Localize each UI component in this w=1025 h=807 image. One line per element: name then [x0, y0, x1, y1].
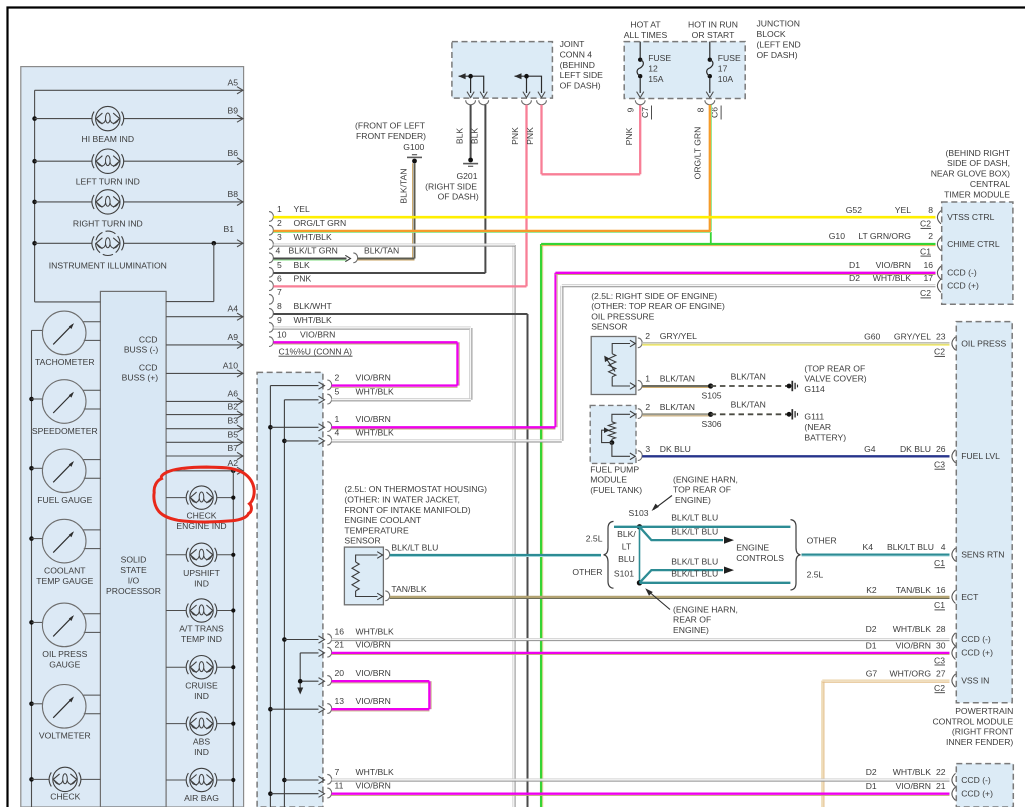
- svg-text:2: 2: [277, 218, 282, 228]
- svg-text:VTSS CTRL: VTSS CTRL: [947, 212, 994, 222]
- svg-text:1: 1: [335, 414, 340, 424]
- wire VIO/BRN D1 row: [555, 272, 935, 274]
- svg-text:ENGINE: ENGINE: [736, 543, 769, 553]
- svg-text:C6: C6: [710, 107, 720, 118]
- svg-text:LEFT SIDE: LEFT SIDE: [560, 70, 604, 80]
- ground G201: [468, 158, 473, 163]
- svg-text:8: 8: [695, 107, 705, 112]
- svg-text:C1: C1: [920, 246, 931, 256]
- svg-text:CONTROLS: CONTROLS: [736, 553, 784, 563]
- svg-text:3: 3: [645, 444, 650, 454]
- brace right engine controls: [791, 520, 801, 590]
- wire 20 VIO/BRN loop to 13: [332, 680, 430, 682]
- svg-text:8: 8: [277, 301, 282, 311]
- svg-text:D1: D1: [849, 260, 860, 270]
- connector pin 4: [284, 440, 318, 442]
- svg-text:BLK/LT BLU: BLK/LT BLU: [671, 513, 718, 523]
- svg-text:BLK: BLK: [455, 128, 465, 145]
- svg-text:22: 22: [936, 767, 946, 777]
- svg-text:OIL PRESSURE: OIL PRESSURE: [591, 311, 654, 321]
- svg-text:VIO/BRN: VIO/BRN: [356, 414, 391, 424]
- wire VIO/BRN CCD(+) row 21-30: [332, 652, 950, 654]
- instrument cluster panel box: [21, 67, 244, 807]
- svg-text:CCD (+): CCD (+): [947, 280, 979, 290]
- svg-text:(FRONT OF LEFT: (FRONT OF LEFT: [355, 121, 426, 131]
- svg-text:C3: C3: [934, 460, 945, 470]
- wire B1 to processor: [213, 243, 215, 301]
- wire BLK/LT BLU S103 top: [614, 526, 790, 528]
- svg-text:OF DASH): OF DASH): [560, 80, 601, 90]
- svg-text:C2: C2: [920, 219, 931, 229]
- svg-text:C2: C2: [934, 683, 945, 693]
- svg-text:TACHOMETER: TACHOMETER: [35, 357, 95, 367]
- svg-text:28: 28: [936, 624, 946, 634]
- svg-text:G111: G111: [804, 412, 824, 422]
- svg-text:CCD (-): CCD (-): [961, 775, 991, 785]
- svg-text:CHIME CTRL: CHIME CTRL: [947, 239, 1000, 249]
- svg-text:G114: G114: [804, 384, 825, 394]
- svg-text:TEMP GAUGE: TEMP GAUGE: [36, 576, 93, 586]
- svg-text:2: 2: [335, 372, 340, 382]
- wire BLK/LT BLU S101 bottom: [640, 582, 791, 584]
- svg-text:IND: IND: [194, 691, 209, 701]
- node dots on connector buses: [268, 425, 273, 430]
- wire LT GRN/ORG vertical: [540, 244, 542, 807]
- svg-text:ORG/LT GRN: ORG/LT GRN: [294, 218, 347, 228]
- connector pin 21: [300, 652, 318, 654]
- svg-text:BLK/TAN: BLK/TAN: [660, 402, 695, 412]
- svg-text:(TOP REAR OF: (TOP REAR OF: [804, 363, 865, 373]
- wire BLK/TAN dashed to G111: [711, 413, 789, 415]
- svg-text:ECT: ECT: [961, 592, 979, 602]
- svg-text:D2: D2: [866, 767, 877, 777]
- wire BLK wire5 riser: [484, 105, 486, 273]
- svg-text:FRONT OF INTAKE MANIFOLD): FRONT OF INTAKE MANIFOLD): [344, 505, 470, 515]
- svg-text:BLK/TAN: BLK/TAN: [399, 168, 409, 203]
- svg-text:S103: S103: [628, 508, 648, 518]
- svg-text:LT: LT: [622, 541, 632, 551]
- wire indicator bus vertical: [232, 471, 234, 807]
- svg-text:(2.5L: RIGHT SIDE OF ENGINE): (2.5L: RIGHT SIDE OF ENGINE): [591, 291, 717, 301]
- svg-text:C3: C3: [934, 655, 945, 665]
- wire pins 21-20 link with down arrow: [299, 653, 301, 688]
- svg-text:G201: G201: [456, 171, 477, 181]
- svg-text:OIL PRESS: OIL PRESS: [42, 649, 87, 659]
- svg-text:YEL: YEL: [895, 205, 911, 215]
- svg-text:REAR OF: REAR OF: [673, 615, 711, 625]
- svg-text:WHT/BLK: WHT/BLK: [294, 232, 332, 242]
- svg-text:JUNCTION: JUNCTION: [757, 19, 800, 29]
- connector pin 1: [270, 426, 318, 428]
- svg-text:AIR BAG: AIR BAG: [184, 793, 219, 803]
- svg-text:(ENGINE HARN,: (ENGINE HARN,: [673, 474, 738, 484]
- svg-text:BLK/TAN: BLK/TAN: [731, 371, 766, 381]
- svg-text:COOLANT: COOLANT: [44, 565, 86, 575]
- svg-text:27: 27: [936, 668, 946, 678]
- svg-text:30: 30: [936, 640, 946, 650]
- svg-text:CHECK: CHECK: [186, 511, 216, 521]
- svg-text:CCD (+): CCD (+): [961, 648, 993, 658]
- svg-text:ORG/LT GRN: ORG/LT GRN: [692, 127, 702, 180]
- svg-text:I/O: I/O: [128, 576, 140, 586]
- svg-text:A2: A2: [227, 458, 238, 468]
- svg-text:ENGINE): ENGINE): [673, 625, 709, 635]
- gauge SPEEDOMETER: [32, 398, 43, 400]
- svg-text:BLOCK: BLOCK: [757, 29, 786, 39]
- svg-text:15A: 15A: [648, 74, 664, 84]
- svg-text:16: 16: [335, 626, 345, 636]
- svg-text:2: 2: [928, 231, 933, 241]
- wire WHT/BLK row 7-22: [332, 778, 950, 780]
- wire ORG/LT GRN from fuse 17 riser: [709, 105, 711, 231]
- svg-text:OTHER: OTHER: [807, 535, 837, 545]
- wire 9 link to pin 5: [469, 328, 471, 400]
- PCM pin VSS IN 27: [952, 674, 956, 687]
- svg-text:SENSOR: SENSOR: [591, 322, 627, 332]
- svg-text:B9: B9: [227, 106, 238, 116]
- svg-text:SPEEDOMETER: SPEEDOMETER: [32, 426, 98, 436]
- wire BLK/WHT vertical from wire8: [527, 314, 529, 807]
- svg-text:7: 7: [335, 767, 340, 777]
- gauge COOLANT TEMP GAUGE: [32, 538, 43, 540]
- svg-text:ABS: ABS: [193, 737, 210, 747]
- svg-text:OIL PRESS: OIL PRESS: [961, 338, 1006, 348]
- svg-text:GRY/YEL: GRY/YEL: [894, 331, 931, 341]
- svg-text:CCD (-): CCD (-): [961, 634, 991, 644]
- wire BLK/LT BLU S101 branch arrow: [640, 570, 724, 583]
- svg-text:A6: A6: [227, 388, 238, 398]
- svg-text:G60: G60: [864, 331, 880, 341]
- svg-text:CCD (-): CCD (-): [947, 268, 977, 278]
- svg-text:WHT/BLK: WHT/BLK: [356, 626, 394, 636]
- CTM pin CCD(-) 16: [937, 266, 941, 279]
- svg-text:RIGHT TURN IND: RIGHT TURN IND: [73, 219, 143, 229]
- connector pin 7: [284, 779, 318, 781]
- node gauge bus dots: [29, 397, 34, 402]
- svg-text:BLU: BLU: [618, 554, 635, 564]
- svg-text:C2: C2: [934, 347, 945, 357]
- svg-text:UPSHIFT: UPSHIFT: [183, 568, 221, 578]
- svg-text:FUEL LVL: FUEL LVL: [961, 451, 1000, 461]
- svg-text:POWERTRAIN: POWERTRAIN: [955, 706, 1013, 716]
- wire pin A5: [35, 89, 244, 91]
- svg-text:8: 8: [928, 205, 933, 215]
- svg-text:2.5L: 2.5L: [807, 570, 824, 580]
- svg-text:C1%%U (CONN A): C1%%U (CONN A): [279, 346, 353, 356]
- wire WHT/ORG vertical VSS: [821, 681, 823, 807]
- svg-text:NEAR GLOVE BOX): NEAR GLOVE BOX): [931, 169, 1010, 179]
- svg-text:HOT AT: HOT AT: [630, 20, 661, 30]
- svg-text:5: 5: [277, 260, 282, 270]
- PCM pin ECT 16: [952, 590, 956, 603]
- wire BLK to G201: [470, 105, 472, 159]
- svg-text:TEMPERATURE: TEMPERATURE: [344, 525, 409, 535]
- wire connector bus vertical 1: [269, 386, 271, 807]
- svg-text:VALVE COVER): VALVE COVER): [804, 374, 866, 384]
- svg-text:21: 21: [936, 781, 946, 791]
- wire WHT/BLK CCD(-) row 16-28: [332, 637, 950, 639]
- svg-text:ENGINE): ENGINE): [675, 495, 711, 505]
- svg-text:(ENGINE HARN,: (ENGINE HARN,: [673, 604, 738, 614]
- svg-text:CCD (+): CCD (+): [961, 789, 993, 799]
- svg-text:SENS RTN: SENS RTN: [961, 550, 1004, 560]
- svg-text:CHECK: CHECK: [50, 791, 80, 801]
- lamp ABS IND: [166, 723, 186, 725]
- svg-text:FUSE: FUSE: [648, 53, 671, 63]
- svg-text:VIO/BRN: VIO/BRN: [356, 668, 391, 678]
- fuel pump module dashed box: [590, 405, 636, 463]
- wire BLK/LT BLU K4 SENS RTN row: [802, 553, 950, 555]
- bottom module pin CCD(-) 22: [952, 773, 956, 786]
- PCM pin SENS RTN 4: [952, 548, 956, 561]
- svg-text:MODULE: MODULE: [590, 475, 627, 485]
- svg-text:16: 16: [936, 585, 946, 595]
- svg-text:SENSOR: SENSOR: [344, 536, 380, 546]
- ground G114: [787, 384, 792, 389]
- wire pin 1 VIO/BRN row: [332, 426, 556, 428]
- svg-text:G100: G100: [403, 142, 424, 152]
- oil sensor pin 1 BLK/TAN to S105: [638, 380, 642, 390]
- svg-text:20: 20: [335, 668, 345, 678]
- svg-text:BLK/LT BLU: BLK/LT BLU: [671, 556, 718, 566]
- svg-text:C1: C1: [934, 558, 945, 568]
- svg-text:7: 7: [277, 287, 282, 297]
- svg-text:(NEAR: (NEAR: [804, 422, 831, 432]
- svg-text:S101: S101: [614, 569, 634, 579]
- svg-text:B7: B7: [227, 443, 238, 453]
- svg-text:A/T TRANS: A/T TRANS: [179, 624, 224, 634]
- wire BLK/TAN vertical to G100: [414, 163, 416, 258]
- svg-text:VIO/BRN: VIO/BRN: [356, 781, 391, 791]
- svg-text:OTHER: OTHER: [572, 567, 602, 577]
- svg-text:26: 26: [936, 444, 946, 454]
- svg-text:A10: A10: [223, 360, 239, 370]
- svg-text:CRUISE: CRUISE: [185, 680, 218, 690]
- wire 10 link to pin 2: [456, 342, 458, 385]
- gauge VOLTMETER: [32, 703, 43, 705]
- svg-text:(RIGHT SIDE: (RIGHT SIDE: [425, 181, 477, 191]
- oil sensor pin 2 GRY/YEL: [638, 338, 642, 348]
- wire pin 4 WHT/BLK row: [332, 439, 562, 441]
- wire splice vertical S103-S101: [639, 527, 641, 583]
- svg-text:2: 2: [645, 331, 650, 341]
- wire pin B3: [166, 428, 243, 430]
- svg-text:GAUGE: GAUGE: [49, 660, 80, 670]
- svg-text:WHT/BLK: WHT/BLK: [294, 315, 332, 325]
- lamp CHECK ENGINE IND: [166, 497, 186, 499]
- svg-text:JOINT: JOINT: [560, 39, 586, 49]
- joint connector 4 dashed box: [452, 42, 553, 99]
- node junction dots on lamp bus: [32, 116, 37, 121]
- lamp RIGHT TURN IND: [35, 201, 92, 203]
- wire pin B5: [166, 441, 243, 443]
- wire pin A4: [166, 316, 243, 318]
- svg-text:16: 16: [923, 260, 933, 270]
- svg-text:10A: 10A: [718, 74, 734, 84]
- wire pin A10: [166, 372, 243, 374]
- svg-text:BLK/LT BLU: BLK/LT BLU: [887, 542, 934, 552]
- svg-text:B1: B1: [223, 224, 234, 234]
- PCM pin OIL PRESS 23: [952, 337, 956, 350]
- svg-text:K4: K4: [863, 542, 874, 552]
- connector C1 wire 3 WHT/BLK: [269, 239, 273, 249]
- svg-text:B5: B5: [227, 429, 238, 439]
- svg-text:VIO/BRN: VIO/BRN: [356, 640, 391, 650]
- svg-text:BATTERY): BATTERY): [804, 432, 846, 442]
- svg-text:IND: IND: [194, 747, 209, 757]
- svg-text:A9: A9: [227, 332, 238, 342]
- svg-text:BLK/LT BLU: BLK/LT BLU: [671, 569, 718, 579]
- svg-text:DK BLU: DK BLU: [660, 444, 691, 454]
- svg-text:B6: B6: [227, 148, 238, 158]
- svg-text:STATE: STATE: [120, 565, 147, 575]
- svg-text:C1: C1: [934, 600, 945, 610]
- svg-text:C2: C2: [920, 288, 931, 298]
- svg-text:BLK/WHT: BLK/WHT: [294, 301, 333, 311]
- wire VIO/BRN row 11-21: [332, 793, 950, 795]
- connector C1 wire 7 empty: [269, 294, 273, 304]
- svg-text:OF DASH): OF DASH): [757, 50, 798, 60]
- connector C1 wire 2 ORG/LT GRN: [269, 225, 273, 235]
- svg-text:12: 12: [648, 64, 658, 74]
- splice S105: [708, 383, 713, 388]
- svg-text:6: 6: [277, 273, 282, 283]
- svg-text:SOLID: SOLID: [121, 555, 147, 565]
- svg-text:K2: K2: [866, 585, 877, 595]
- gauge FUEL GAUGE: [32, 467, 43, 469]
- fuel pump pin 2 BLK/TAN to S306: [638, 409, 642, 419]
- svg-text:S306: S306: [702, 419, 722, 429]
- svg-text:G52: G52: [846, 205, 862, 215]
- brace left engine controls: [603, 521, 613, 588]
- CTM pin CCD(+) 17: [937, 279, 941, 292]
- lamp UPSHIFT IND: [166, 554, 186, 556]
- lamp A/T TRANS TEMP IND: [166, 610, 186, 612]
- svg-text:BLK/: BLK/: [617, 529, 636, 539]
- joint conn 4 right branch: [515, 76, 542, 93]
- svg-text:21: 21: [335, 640, 345, 650]
- svg-text:HI BEAM IND: HI BEAM IND: [82, 134, 135, 144]
- svg-text:G7: G7: [866, 668, 878, 678]
- svg-text:IND: IND: [194, 578, 209, 588]
- wire gauge bus vertical: [31, 330, 33, 807]
- svg-text:SIDE OF DASH,: SIDE OF DASH,: [947, 158, 1010, 168]
- resistor R-ECT: [352, 562, 359, 591]
- gauge OIL PRESS GAUGE: [32, 621, 43, 623]
- svg-text:FRONT FENDER): FRONT FENDER): [356, 131, 426, 141]
- svg-text:CCD: CCD: [139, 334, 158, 344]
- node junction dot B1 row: [212, 241, 217, 246]
- svg-text:INNER FENDER): INNER FENDER): [946, 737, 1013, 747]
- lamp AIR BAG IND: [166, 779, 186, 781]
- svg-text:13: 13: [335, 696, 345, 706]
- svg-text:WHT/BLK: WHT/BLK: [356, 387, 394, 397]
- svg-text:(OTHER: TOP REAR OF ENGINE): (OTHER: TOP REAR OF ENGINE): [591, 301, 725, 311]
- svg-text:17: 17: [718, 64, 728, 74]
- wire BLK/TAN dashed to G114: [711, 385, 789, 387]
- connector C1 wire 5 BLK: [269, 267, 273, 277]
- svg-text:BLK/TAN: BLK/TAN: [364, 246, 399, 256]
- connector pin 11: [270, 793, 318, 795]
- joint conn 4 left branch: [459, 76, 484, 93]
- connector pin 5: [284, 399, 318, 401]
- svg-text:A5: A5: [227, 77, 238, 87]
- svg-text:ENGINE COOLANT: ENGINE COOLANT: [344, 515, 422, 525]
- bottom module dashed box: [956, 764, 1013, 807]
- svg-text:PNK: PNK: [624, 127, 634, 145]
- svg-text:1: 1: [645, 374, 650, 384]
- svg-text:TIMER MODULE: TIMER MODULE: [944, 189, 1010, 199]
- svg-text:G4: G4: [864, 444, 876, 454]
- svg-text:5: 5: [335, 387, 340, 397]
- wire pin A9: [166, 344, 243, 346]
- svg-text:VIO/BRN: VIO/BRN: [300, 329, 335, 339]
- svg-text:(FUEL TANK): (FUEL TANK): [590, 485, 642, 495]
- svg-text:PNK: PNK: [510, 127, 520, 145]
- oil pressure sensor box: [591, 337, 636, 395]
- connector pin 16: [284, 639, 318, 641]
- svg-text:TOP REAR OF: TOP REAR OF: [673, 485, 731, 495]
- central timer module box: [942, 202, 1013, 304]
- svg-text:OF DASH): OF DASH): [438, 192, 479, 202]
- wire pin A6: [166, 400, 243, 402]
- wire BLK/LT BLU S103 branch arrow: [640, 527, 724, 540]
- svg-text:WHT/ORG: WHT/ORG: [889, 668, 931, 678]
- svg-text:BLK/TAN: BLK/TAN: [660, 374, 695, 384]
- wire VIO/BRN vertical to pin1: [554, 273, 556, 428]
- svg-text:(2.5L: ON THERMOSTAT HOUSING): (2.5L: ON THERMOSTAT HOUSING): [344, 484, 487, 494]
- svg-text:BUSS (-): BUSS (-): [124, 345, 159, 355]
- splice S306: [708, 412, 713, 417]
- svg-text:11: 11: [335, 781, 344, 791]
- svg-text:CONTROL MODULE: CONTROL MODULE: [932, 716, 1013, 726]
- svg-text:B3: B3: [227, 416, 238, 426]
- svg-text:VOLTMETER: VOLTMETER: [39, 731, 91, 741]
- lamp HI BEAM IND: [35, 118, 92, 120]
- svg-text:DK BLU: DK BLU: [900, 444, 931, 454]
- svg-text:INSTRUMENT ILLUMINATION: INSTRUMENT ILLUMINATION: [49, 261, 167, 271]
- svg-text:2.5L: 2.5L: [586, 534, 603, 544]
- resistor R-oilsensor variable: [609, 354, 616, 377]
- PCM pin CCD(+) 30: [952, 646, 956, 659]
- svg-text:4: 4: [276, 246, 281, 256]
- svg-text:VIO/BRN: VIO/BRN: [356, 372, 391, 382]
- svg-text:WHT/BLK: WHT/BLK: [893, 624, 931, 634]
- powertrain control module box: [956, 322, 1012, 703]
- wire pin B7: [166, 455, 243, 457]
- svg-text:VIO/BRN: VIO/BRN: [876, 260, 911, 270]
- svg-text:ALL TIMES: ALL TIMES: [624, 30, 668, 40]
- svg-text:PNK: PNK: [294, 273, 312, 283]
- connector pin 2: [270, 385, 318, 387]
- connector C1 wire 8 BLK/WHT: [269, 308, 273, 318]
- svg-text:23: 23: [936, 331, 946, 341]
- svg-text:PNK: PNK: [525, 127, 535, 145]
- svg-text:B2: B2: [227, 402, 238, 412]
- node junction dot A2 row: [231, 469, 236, 474]
- connector pin 13: [270, 708, 318, 710]
- CTM pin VTSS CTRL 8: [937, 211, 941, 224]
- svg-text:(OTHER: IN WATER JACKET,: (OTHER: IN WATER JACKET,: [344, 495, 460, 505]
- connector C1 wire 9 WHT/BLK: [269, 322, 273, 332]
- svg-text:(LEFT END: (LEFT END: [757, 39, 801, 49]
- wire WHT/ORG VSS row: [822, 679, 949, 681]
- wire LT GRN/ORG jog at fuse riser: [710, 232, 712, 244]
- svg-text:BLK/LT GRN: BLK/LT GRN: [289, 246, 338, 256]
- svg-text:VIO/BRN: VIO/BRN: [896, 640, 931, 650]
- svg-text:3: 3: [277, 232, 282, 242]
- ECT pin TAN/BLK: [385, 591, 389, 601]
